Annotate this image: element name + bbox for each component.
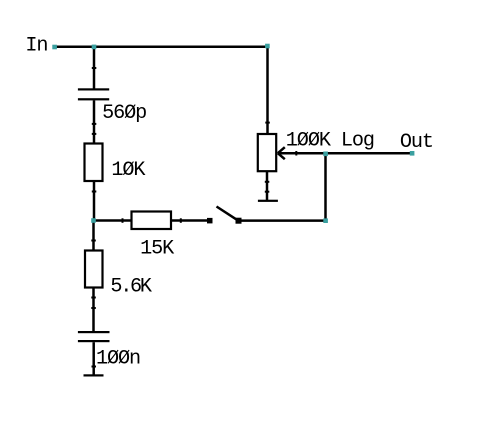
svg-text:1ØK: 1ØK [111,159,146,182]
pin tick: pot top pin end [265,122,270,124]
svg-text:Out: Out [400,131,433,154]
switch SW1 right contact [236,218,242,224]
svg-text:In: In [25,35,47,58]
potentiometer VR1 body [258,134,276,171]
pin tick: R2 bottom pin end [91,297,96,299]
pin tick: wiper pin end [295,151,297,156]
pin tick: C1 top pin end [92,67,97,69]
wire: wiper to Out terminal [278,152,412,155]
potentiometer VR1 wiper arrow [278,147,285,159]
wire: junction down to C1 top pin [93,47,96,90]
capacitor C2 100n [78,331,110,342]
pin tick: ground pin end under pot [265,191,270,193]
pin tick: R3 left pin end [122,218,124,223]
wire: junction right to R3 [94,219,132,222]
svg-text:1ØØn: 1ØØn [96,348,140,371]
svg-text:56Øp: 56Øp [102,102,146,125]
pin tick: R2 top pin end [91,240,96,242]
resistor R1 10K [85,144,103,182]
resistor R3 15K [132,212,172,230]
pin tick: R1 bottom pin end [92,191,97,193]
wire: junction down to R2 [92,221,95,251]
ground: bar under potentiometer [258,200,278,202]
node: junction above C1 [92,45,97,50]
switch SW1 lever [217,207,239,221]
pin tick: R3 right pin end [180,218,182,223]
wire: R3 right pin to switch left contact [171,219,207,222]
node: corner of top net at pot [265,44,270,49]
pin tick: R1 top pin end [92,133,97,135]
svg-text:5.6K: 5.6K [110,276,152,299]
wire: R2 bottom pin down to C2 [92,288,95,333]
node: junction between R1, R2 and R3 [91,218,96,223]
node: junction of wiper net and switch net [323,152,328,157]
node: junction at switch net corner [323,218,328,223]
wire: top horizontal net from In to pot corner [54,46,268,49]
switch SW1 left contact [207,218,213,224]
wire: vertical from switch junction up to wiper net [324,153,327,220]
wire: C2 bottom pin down to ground [92,342,95,375]
svg-text:15K: 15K [140,237,175,260]
pin tick: pot bottom pin end [265,181,270,183]
wire: switch right contact to junction below pot [241,219,326,222]
wire: pot bottom pin down to ground [266,171,269,201]
node: In terminal [52,45,57,50]
pin tick: C1 bottom pin end [92,123,97,125]
svg-text:1ØØK Log: 1ØØK Log [286,129,374,152]
resistor R2 5.6K [85,251,103,288]
wire: pot top pin from corner node [266,47,269,134]
pin tick: C2 top pin end [91,307,96,309]
ground: bar under C2 [84,374,104,376]
pin tick: ground pin end below C2 [92,366,97,368]
capacitor C1 560p [78,88,109,100]
wire: R1 bottom pin down to junction [93,181,96,221]
node: Out terminal [410,151,415,156]
wire: C1 bottom pin down to R1 [93,100,96,143]
